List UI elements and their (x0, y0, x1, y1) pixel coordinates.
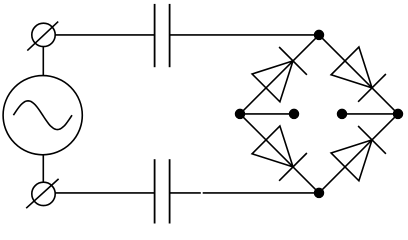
node inner-left (290, 109, 299, 118)
wire bottom-left: terminal to C2 (55, 192, 154, 194)
wire bottom-right: C2 to bottom node (170, 192, 201, 194)
capacitor C1 (top) (155, 4, 170, 67)
terminal J1 (top, circle with slash) (27, 22, 58, 51)
terminal J2 (bottom, circle with slash) (26, 179, 58, 208)
diode D2 (upper-right side: top node to right node) (319, 35, 398, 114)
AC source V1 (3, 76, 82, 155)
wire stub: left node to inner-left dot (240, 113, 294, 115)
node left (236, 109, 245, 118)
wire bottom-right continued after gap (203, 192, 319, 194)
node top (315, 30, 324, 39)
wire vertical: top terminal to source (42, 47, 44, 76)
diode D1 (upper-left side: left node to top node) (240, 35, 319, 114)
capacitor C2 (bottom) (155, 159, 170, 223)
diode D4 (lower-right side: bottom node to right node) (319, 114, 398, 193)
node right (394, 109, 403, 118)
node inner-right (338, 109, 347, 118)
wire top-left: terminal to C1 (55, 34, 154, 36)
wire vertical: source to bottom terminal (42, 155, 44, 183)
node bottom (315, 188, 324, 197)
wire stub: right node to inner-right dot (342, 113, 398, 115)
wire top-right: C1 to top node (170, 34, 319, 36)
diode D3 (lower-left side: left node to bottom node) (240, 114, 319, 193)
